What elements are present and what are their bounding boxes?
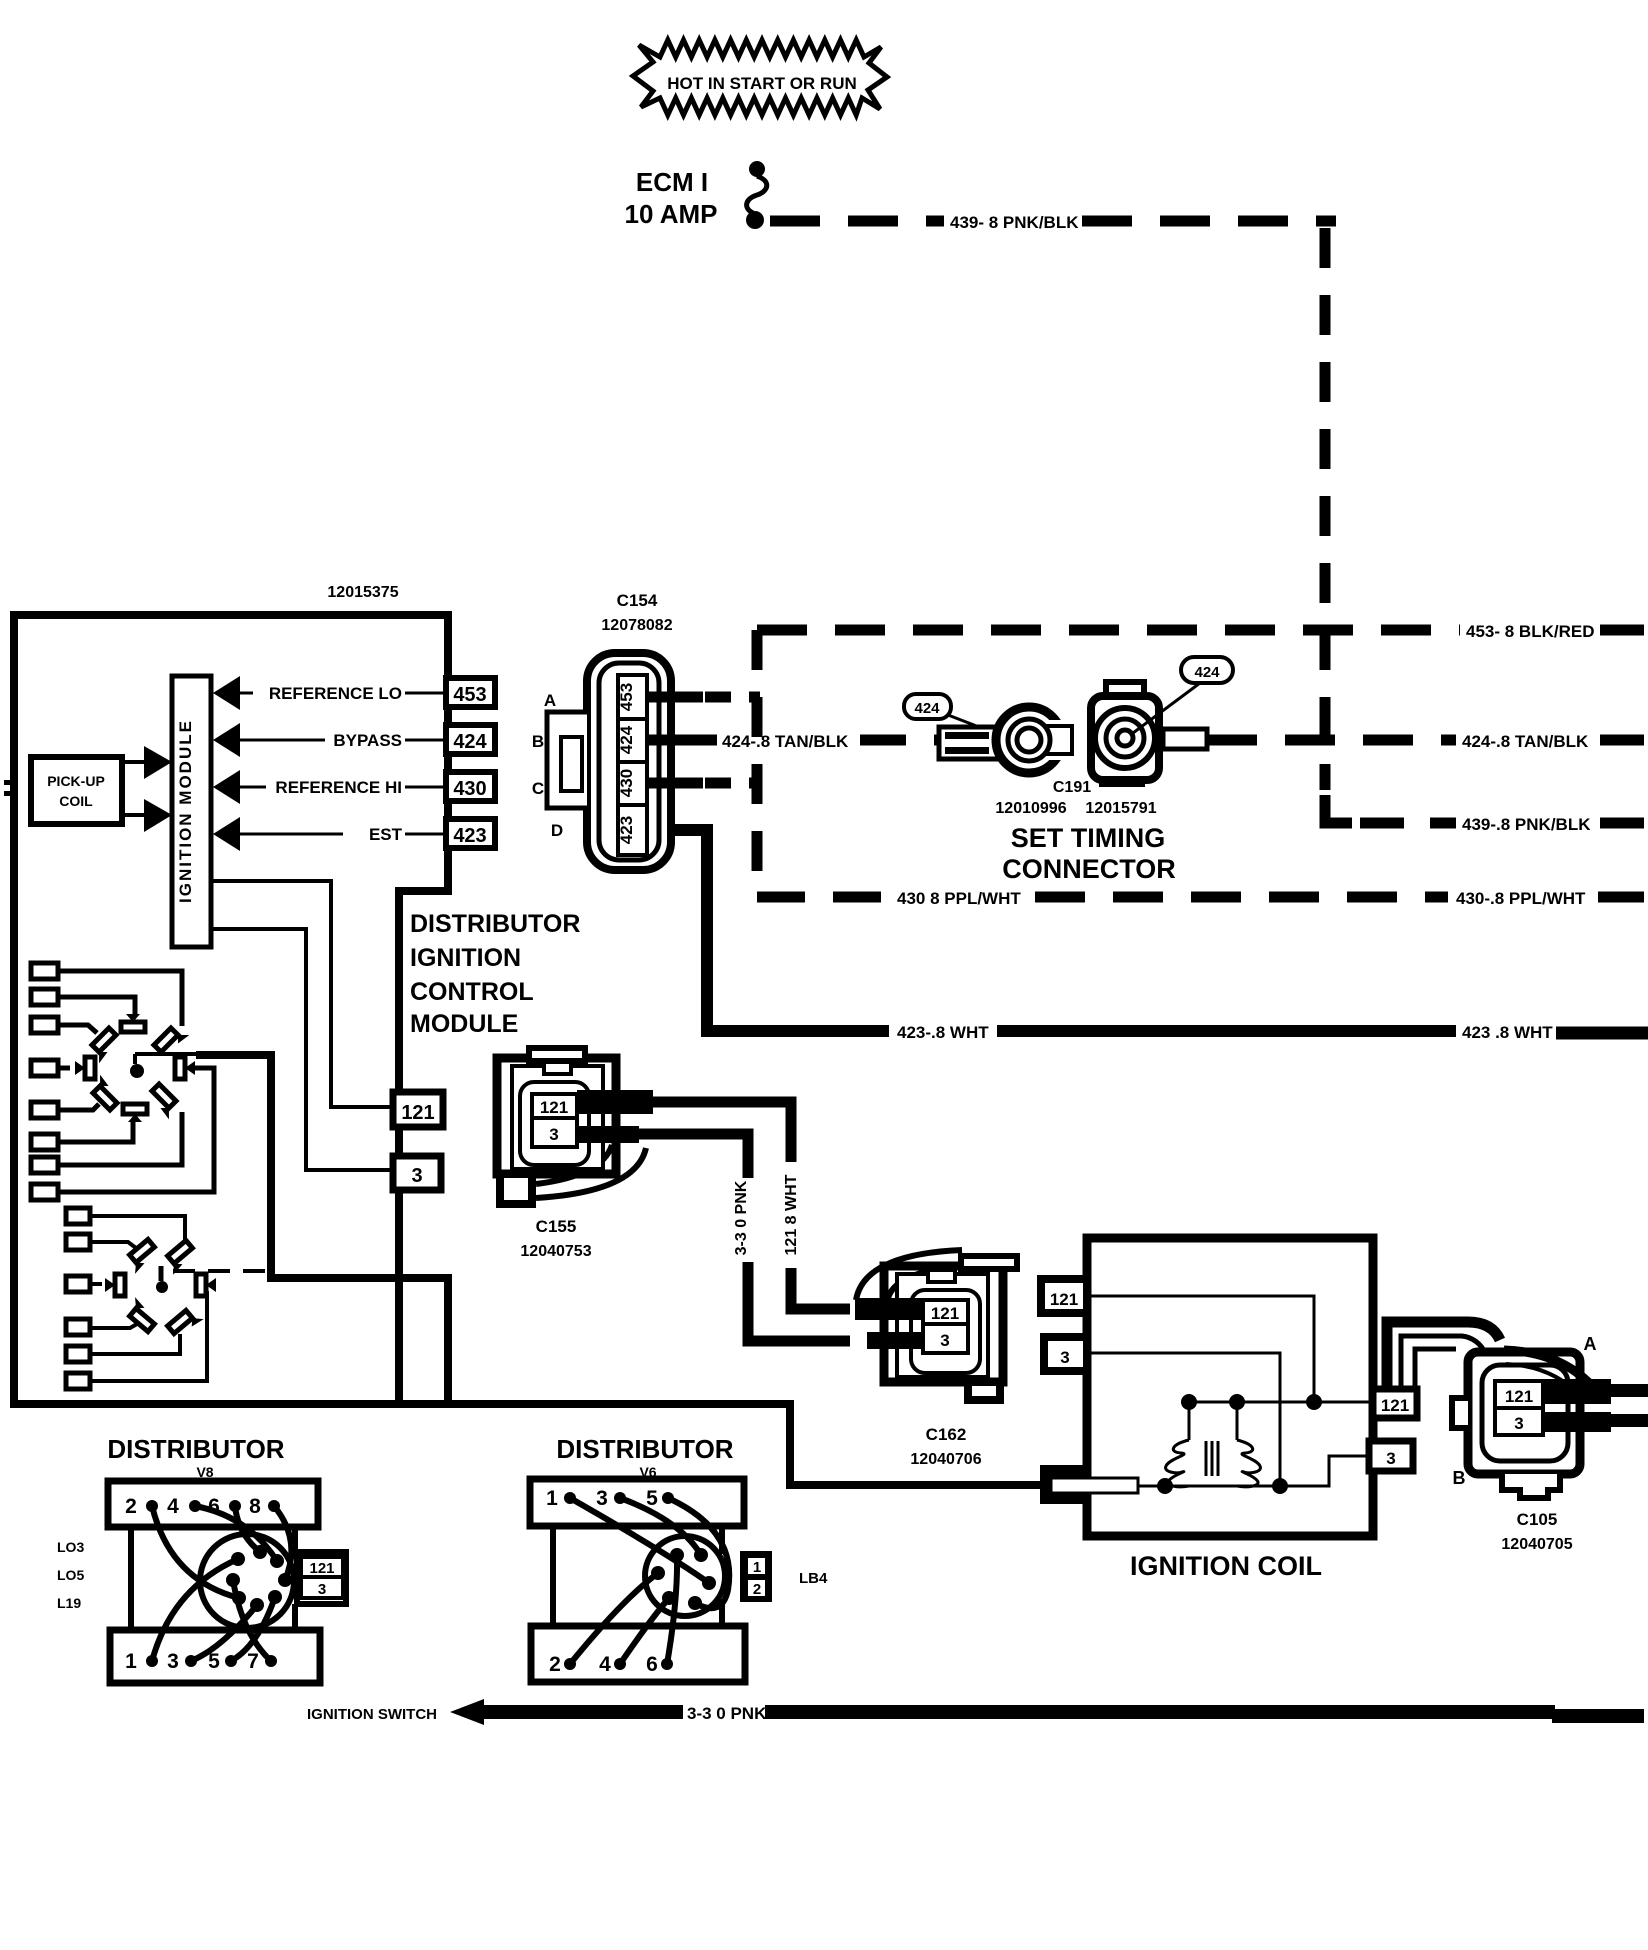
wire l4 — [90, 1324, 137, 1328]
wire 423 WHT solid from C154 pin D — [647, 830, 889, 1031]
wire ignition module to pin 3 — [211, 929, 393, 1170]
wire l1 — [90, 1216, 185, 1240]
plug u6 — [123, 1104, 147, 1122]
set timing right stub — [1163, 729, 1207, 749]
V8 pin 121 — [301, 1557, 343, 1577]
svg-text:424: 424 — [453, 731, 487, 753]
plug u2 — [121, 1014, 145, 1032]
svg-text:439- 8 PNK/BLK: 439- 8 PNK/BLK — [950, 213, 1079, 232]
svg-text:3: 3 — [596, 1487, 608, 1510]
svg-text:453: 453 — [453, 684, 486, 706]
svg-text:3: 3 — [1060, 1348, 1069, 1367]
wire 439-8 PNK/BLK horizontal from fuse — [770, 216, 944, 227]
svg-text:REFERENCE LO: REFERENCE LO — [269, 684, 402, 703]
arrow into ignition module (upper) — [144, 746, 172, 779]
terminal box l5 — [66, 1346, 90, 1362]
C162 pin 121 — [923, 1300, 968, 1324]
plug l1 — [161, 1240, 197, 1274]
svg-text:121: 121 — [401, 1102, 434, 1124]
coil pin 3 (right) — [1369, 1441, 1413, 1471]
C154 pin 423 — [618, 805, 647, 855]
junction dots — [1181, 1394, 1197, 1410]
C154 pin 453 — [618, 675, 647, 719]
svg-text:12040753: 12040753 — [520, 1243, 591, 1260]
terminal box l2 — [66, 1234, 90, 1250]
C105 body — [1468, 1352, 1580, 1474]
svg-text:BYPASS: BYPASS — [333, 731, 402, 750]
thick wire from upper cluster to module edge — [196, 1055, 448, 1400]
arrow into ignition module (lower) — [144, 799, 172, 832]
C154 pin stub C — [647, 778, 703, 789]
C155 pin bars — [577, 1090, 653, 1114]
V6 cap bottom bar — [531, 1626, 745, 1682]
plug l6 — [196, 1274, 206, 1296]
plug u5 — [87, 1075, 122, 1110]
svg-text:C155: C155 — [536, 1217, 577, 1236]
wire u4 — [58, 1066, 70, 1071]
terminal box l6 — [66, 1373, 90, 1389]
connector C155 body — [497, 1058, 616, 1174]
svg-text:3: 3 — [1514, 1414, 1523, 1433]
svg-text:REFERENCE HI: REFERENCE HI — [275, 778, 402, 797]
C105 keying notch — [1452, 1398, 1468, 1428]
svg-text:DISTRIBUTOR: DISTRIBUTOR — [556, 1434, 733, 1464]
svg-text:423: 423 — [453, 825, 486, 847]
terminal box u3 — [31, 1017, 58, 1033]
ignition module box — [172, 676, 211, 947]
svg-text:C: C — [532, 779, 544, 798]
terminal box u6 — [31, 1134, 58, 1150]
svg-text:424: 424 — [914, 700, 940, 717]
V8 rotor pads — [231, 1552, 245, 1566]
svg-text:EST: EST — [369, 825, 403, 844]
svg-text:3-3 0 PNK: 3-3 0 PNK — [733, 1180, 750, 1255]
C105 pin 121 — [1495, 1381, 1543, 1408]
svg-text:3: 3 — [549, 1125, 558, 1144]
svg-text:C154: C154 — [617, 591, 658, 610]
plug u8 — [175, 1057, 185, 1079]
svg-text:424: 424 — [1194, 664, 1220, 681]
svg-text:6: 6 — [646, 1653, 658, 1676]
svg-text:IGNITION MODULE: IGNITION MODULE — [176, 719, 195, 903]
svg-text:424: 424 — [617, 725, 636, 754]
primary winding — [1166, 1440, 1189, 1487]
set timing female connector (right) — [1106, 682, 1144, 700]
svg-text:3: 3 — [318, 1581, 326, 1598]
V6 cap top bar — [530, 1479, 744, 1526]
svg-text:8: 8 — [249, 1495, 261, 1518]
svg-text:121: 121 — [1505, 1387, 1533, 1406]
svg-text:SET TIMING: SET TIMING — [1011, 823, 1166, 853]
wire l5 — [90, 1334, 180, 1354]
module pin 430 — [446, 772, 495, 801]
V8 cap top bar — [108, 1481, 318, 1527]
core lines — [1205, 1441, 1208, 1476]
svg-text:3: 3 — [411, 1165, 422, 1187]
svg-text:5: 5 — [646, 1487, 658, 1510]
svg-text:453: 453 — [617, 683, 636, 711]
svg-text:430-.8 PPL/WHT: 430-.8 PPL/WHT — [1456, 889, 1586, 908]
svg-text:423 .8 WHT: 423 .8 WHT — [1462, 1023, 1553, 1042]
arrow REFERENCE LO into module — [213, 676, 240, 710]
wire 121 8 WHT — [650, 1102, 791, 1162]
V8 pin housing — [297, 1552, 346, 1604]
svg-text:12015375: 12015375 — [327, 584, 398, 601]
svg-text:1: 1 — [753, 1559, 761, 1576]
wire u6 — [58, 1122, 133, 1142]
svg-text:121: 121 — [1381, 1396, 1409, 1415]
C105 pin 3 — [1495, 1408, 1543, 1435]
rotor tick lower — [159, 1266, 164, 1281]
svg-text:121: 121 — [309, 1560, 334, 1577]
svg-text:2: 2 — [753, 1581, 761, 1598]
svg-text:MODULE: MODULE — [410, 1010, 518, 1038]
ignition coil box — [1087, 1238, 1373, 1536]
svg-text:CONTROL: CONTROL — [410, 978, 534, 1006]
svg-text:439-.8 PNK/BLK: 439-.8 PNK/BLK — [1462, 815, 1591, 834]
svg-text:1: 1 — [125, 1650, 137, 1673]
module pin 3 — [393, 1156, 441, 1190]
V8 plug wires — [152, 1506, 239, 1598]
svg-text:12040705: 12040705 — [1501, 1536, 1572, 1553]
svg-text:PICK-UP: PICK-UP — [47, 773, 105, 789]
C105 pin bars — [1543, 1379, 1611, 1404]
V8 cap side rails — [128, 1527, 134, 1630]
coil pin 3 (left) — [1044, 1337, 1087, 1371]
plug l2 — [123, 1239, 159, 1273]
svg-text:2: 2 — [549, 1653, 561, 1676]
svg-text:DISTRIBUTOR: DISTRIBUTOR — [410, 910, 580, 938]
C154 pin 424 — [618, 719, 647, 762]
svg-text:LO3: LO3 — [57, 1539, 84, 1555]
C162 pin bars — [855, 1298, 923, 1320]
V6 pin 1 — [746, 1556, 767, 1576]
wire 424 TAN/BLK dashed row — [701, 735, 717, 746]
secondary winding — [1237, 1440, 1260, 1487]
svg-text:430: 430 — [453, 778, 486, 800]
svg-text:IGNITION SWITCH: IGNITION SWITCH — [307, 1706, 437, 1723]
terminal box u7 — [31, 1157, 58, 1173]
svg-text:3-3 0 PNK: 3-3 0 PNK — [687, 1704, 767, 1723]
terminal box l1 — [66, 1208, 90, 1224]
plug u4 — [85, 1057, 95, 1079]
wire u2 — [58, 997, 135, 1016]
V8 rotor circle — [200, 1534, 294, 1628]
svg-text:4: 4 — [599, 1653, 611, 1676]
svg-text:453- 8 BLK/RED: 453- 8 BLK/RED — [1466, 622, 1594, 641]
svg-text:B: B — [532, 732, 544, 751]
svg-text:A: A — [1584, 1334, 1597, 1354]
svg-text:121: 121 — [540, 1098, 568, 1117]
terminal box u5 — [31, 1102, 58, 1118]
wire ignition module to pin 121 — [211, 881, 393, 1107]
connector C162 body — [884, 1266, 1003, 1382]
wire 439 PNK/BLK vertical drop — [1320, 228, 1331, 790]
svg-text:3: 3 — [940, 1331, 949, 1350]
plug l5 — [168, 1305, 204, 1339]
coil HT terminal — [1040, 1465, 1091, 1504]
C154 pin stub B — [647, 735, 703, 746]
svg-text:CONNECTOR: CONNECTOR — [1002, 854, 1176, 884]
svg-text:D: D — [551, 821, 563, 840]
terminal box l4 — [66, 1319, 90, 1335]
wire pick-up coil to module — [122, 760, 146, 764]
svg-text:12078082: 12078082 — [601, 617, 672, 634]
svg-text:423: 423 — [617, 816, 636, 844]
plug u3 — [86, 1028, 121, 1063]
svg-text:2: 2 — [125, 1495, 137, 1518]
svg-text:C162: C162 — [926, 1425, 967, 1444]
set timing male connector (left) — [939, 727, 999, 759]
set timing connector callout oval 424 (left) — [904, 694, 951, 719]
svg-text:ECM I: ECM I — [636, 167, 708, 197]
svg-text:HOT IN START OR RUN: HOT IN START OR RUN — [667, 74, 857, 93]
svg-text:121: 121 — [931, 1304, 959, 1323]
svg-text:LB4: LB4 — [799, 1570, 828, 1587]
svg-text:3: 3 — [167, 1650, 179, 1673]
V6 cap side rails — [550, 1526, 556, 1626]
svg-text:4: 4 — [167, 1495, 179, 1518]
wire u1 — [58, 971, 182, 1026]
svg-text:B: B — [1453, 1468, 1466, 1488]
V6 pin 2 — [746, 1578, 767, 1598]
wire l2 — [90, 1242, 136, 1248]
arrow EST into module — [213, 817, 240, 851]
svg-text:3: 3 — [1386, 1449, 1395, 1468]
wire u5 — [58, 1104, 99, 1110]
C154 pin stub A — [647, 692, 703, 703]
rotor contact dot upper — [130, 1064, 144, 1078]
coil pin 121 (left) — [1041, 1279, 1087, 1313]
svg-text:L19: L19 — [57, 1595, 81, 1611]
dashed vertical link at set-timing box left — [752, 630, 763, 897]
plug l4 — [123, 1297, 159, 1331]
C155 pin 121 — [532, 1094, 577, 1118]
svg-text:121: 121 — [1050, 1290, 1078, 1309]
wire l6 — [90, 1291, 207, 1381]
svg-text:C105: C105 — [1517, 1510, 1558, 1529]
V8 cap bottom bar — [110, 1630, 320, 1683]
svg-text:1: 1 — [546, 1487, 558, 1510]
wire 439 PNK/BLK right row — [1360, 818, 1456, 829]
svg-text:COIL: COIL — [59, 793, 93, 809]
dash-dot rotor line — [173, 1269, 272, 1273]
svg-text:424-.8 TAN/BLK: 424-.8 TAN/BLK — [722, 732, 849, 751]
connector C154 body — [587, 653, 671, 870]
terminal box u8 — [31, 1184, 58, 1200]
C155 pin 3 — [532, 1118, 577, 1147]
svg-text:430 8 PPL/WHT: 430 8 PPL/WHT — [897, 889, 1021, 908]
wire u7 — [58, 1112, 182, 1165]
C105 bottom boss — [1502, 1474, 1560, 1498]
terminal box u4 — [31, 1060, 58, 1076]
svg-text:10 AMP: 10 AMP — [625, 199, 718, 229]
wire 3-3 0 PNK from ignition switch — [450, 1699, 484, 1725]
wire 3-3 0 PNK — [637, 1134, 748, 1178]
svg-text:DISTRIBUTOR: DISTRIBUTOR — [107, 1434, 284, 1464]
plug l3 — [115, 1274, 125, 1296]
tick marks on left edge — [4, 780, 13, 785]
svg-text:430: 430 — [617, 769, 636, 797]
svg-text:12015791: 12015791 — [1085, 800, 1156, 817]
C105 lead bracket from coil — [1387, 1322, 1500, 1390]
wire 453-8 BLK/RED dashed row — [757, 625, 1460, 636]
short dashed stubs from C154 pins A and C — [705, 692, 760, 703]
distributor ignition control module box 12015375 — [14, 615, 1042, 1485]
svg-text:424-.8 TAN/BLK: 424-.8 TAN/BLK — [1462, 732, 1589, 751]
wire l3 — [90, 1282, 102, 1286]
V6 pin housing — [743, 1554, 769, 1599]
svg-text:A: A — [544, 691, 556, 710]
plug u7 — [146, 1084, 181, 1119]
svg-text:423-.8 WHT: 423-.8 WHT — [897, 1023, 989, 1042]
svg-text:7: 7 — [247, 1650, 259, 1673]
svg-text:IGNITION: IGNITION — [410, 944, 521, 972]
terminal box l3 — [66, 1276, 90, 1292]
svg-text:C191: C191 — [1053, 779, 1091, 796]
pick-up coil box — [31, 757, 122, 824]
V8 pin 3 — [301, 1577, 343, 1598]
svg-text:IGNITION COIL: IGNITION COIL — [1130, 1551, 1322, 1581]
arrow BYPASS into module — [213, 723, 240, 757]
C154 left keying bracket — [547, 712, 587, 808]
svg-text:LO5: LO5 — [57, 1567, 84, 1583]
module pin 424 — [446, 725, 495, 754]
coil pin 121 (right) — [1373, 1389, 1417, 1418]
module pin 423 — [446, 819, 495, 848]
plug u1 — [154, 1022, 189, 1057]
V6 rotor circle — [645, 1536, 725, 1616]
V6 plug wires — [570, 1498, 709, 1583]
svg-text:12010996: 12010996 — [995, 800, 1066, 817]
V6 rotor pads — [670, 1548, 684, 1562]
wire u3 — [58, 1025, 97, 1033]
C162 pin 3 — [923, 1324, 968, 1353]
wire u8 — [58, 1068, 214, 1192]
arrow REFERENCE HI into module — [213, 770, 240, 804]
callout oval 424 (right) — [1181, 657, 1233, 683]
wire 430 PPL/WHT dashed row — [757, 892, 891, 903]
fusible link banner HOT IN START OR RUN — [633, 40, 887, 115]
svg-text:12040706: 12040706 — [910, 1451, 981, 1468]
terminal box u1 — [31, 963, 58, 979]
coil internal wiring — [1087, 1296, 1314, 1402]
svg-text:121 8 WHT: 121 8 WHT — [783, 1174, 800, 1255]
module pin 453 — [446, 678, 495, 707]
module pin 121 — [393, 1092, 443, 1127]
terminal box u2 — [31, 989, 58, 1005]
C154 pin 430 — [618, 762, 647, 805]
